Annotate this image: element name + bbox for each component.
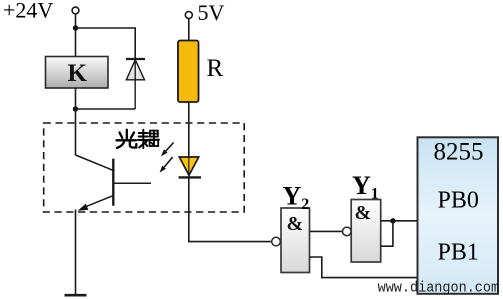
svg-text:+24V: +24V xyxy=(3,0,53,23)
svg-text:8255: 8255 xyxy=(434,139,484,166)
NAND gate Y2 xyxy=(281,208,310,273)
wire: junction A down to relay K xyxy=(75,28,77,57)
wire: Y2 right side to PB1 xyxy=(310,257,418,278)
wire: Y1 output to PB0 xyxy=(381,220,418,222)
label 光耦 (drawn strokes) xyxy=(117,130,137,148)
gate Y2 input bubble xyxy=(272,237,281,246)
svg-text:www.diangon.com: www.diangon.com xyxy=(378,281,500,297)
node A (junction dot top) xyxy=(73,25,78,30)
node B (junction dot bottom of relay) xyxy=(73,106,78,111)
wire: emitter to ground xyxy=(75,210,77,296)
light arrow 1 xyxy=(161,143,174,157)
NAND gate Y1 xyxy=(351,200,381,263)
svg-text:5V: 5V xyxy=(198,0,225,25)
svg-text:Y2: Y2 xyxy=(283,182,310,214)
light arrow 2 xyxy=(160,157,173,173)
optocoupler dashed box xyxy=(44,123,245,212)
relay coil K xyxy=(46,57,109,89)
wire: junction B to diode bottom xyxy=(76,108,136,110)
transistor Q1 (phototransistor) xyxy=(76,155,152,211)
wire: junction A to diode top xyxy=(76,28,136,59)
svg-text:Y1: Y1 xyxy=(352,171,379,203)
IC 8255 xyxy=(418,137,499,293)
resistor R xyxy=(178,41,199,103)
svg-text:R: R xyxy=(207,55,224,82)
svg-text:K: K xyxy=(68,60,88,87)
wire: feedback from node C to Y1 right side xyxy=(381,221,393,246)
terminal +24V xyxy=(72,7,79,14)
svg-text:&: & xyxy=(355,202,372,224)
node C (junction on Y1 output) xyxy=(390,218,395,223)
svg-text:PB1: PB1 xyxy=(438,240,479,266)
wire: 5V terminal to resistor R xyxy=(188,19,190,42)
svg-text:&: & xyxy=(287,213,304,235)
LED D2 with light arrows xyxy=(179,157,202,177)
wire: relay K to junction B xyxy=(75,88,77,109)
wire: +24V terminal to junction A xyxy=(75,14,77,28)
terminal 5V xyxy=(185,12,192,19)
ground xyxy=(65,294,87,297)
wire: resistor to LED xyxy=(188,102,190,157)
svg-text:PB0: PB0 xyxy=(438,188,479,214)
diode D1 (flyback across relay) xyxy=(126,59,145,109)
wire: junction B down to transistor collector xyxy=(75,109,77,156)
wire: Y2 output to Y1 input bubble xyxy=(310,230,343,232)
wire: LED cathode to gate Y2 input xyxy=(189,177,272,241)
gate Y1 input bubble xyxy=(343,227,352,236)
